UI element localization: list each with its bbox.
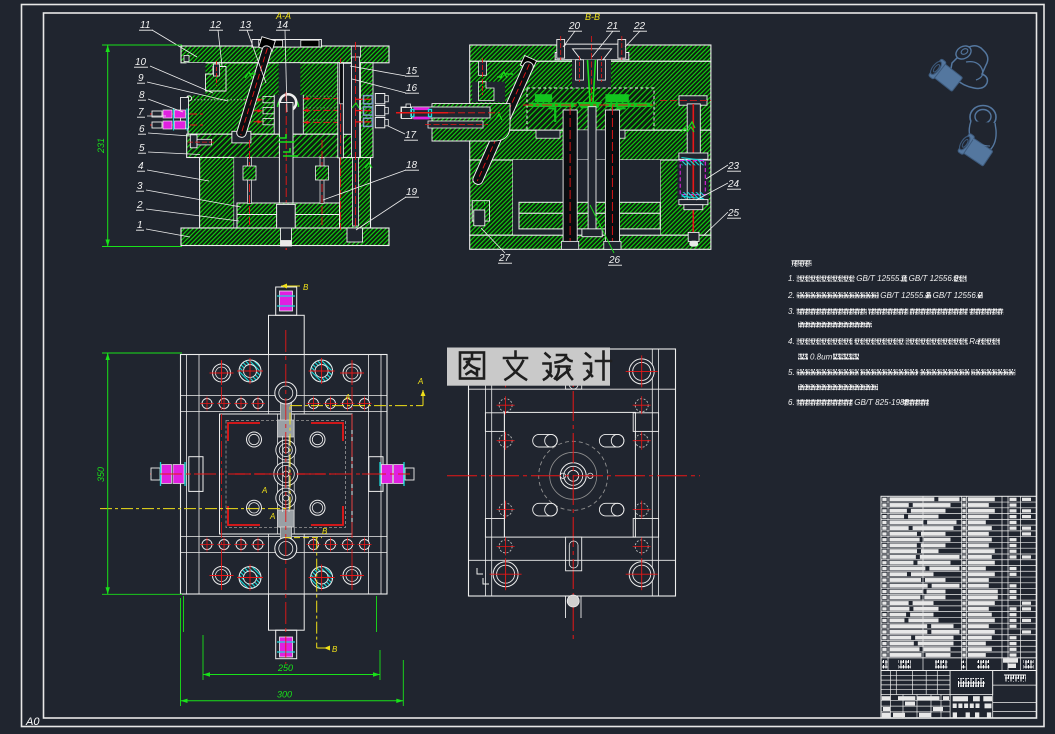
BB dark ejection space [513, 160, 660, 235]
svg-text:11: 11 [140, 20, 150, 31]
BB green gate hooks [549, 108, 626, 122]
notes title [792, 260, 812, 267]
BB bright green runner bars [529, 103, 576, 107]
BB cavity insert dashed box [527, 88, 654, 130]
BB support line [470, 159, 711, 161]
char tu (picture) [460, 353, 484, 379]
PL cyan hatched guide bushings [239, 360, 261, 382]
BB bright green insert patches [535, 94, 552, 102]
green clamp marks center [279, 134, 298, 156]
PL inner verticals [186, 355, 188, 595]
angle pin head [259, 37, 276, 52]
BB washer top [679, 153, 708, 159]
BB right foot screw (item 25) [688, 232, 699, 241]
BB bottom clamp plate [470, 235, 711, 249]
PR outer plate [469, 349, 676, 596]
BB left foot (item 27) [472, 201, 489, 221]
svg-text:6.: 6. [788, 398, 795, 407]
svg-text:5: 5 [139, 143, 145, 154]
dim 350 vertical [107, 353, 109, 594]
PL outer plate [181, 355, 388, 595]
svg-text:15: 15 [406, 66, 418, 77]
svg-text:GB/T 825-1988: GB/T 825-1988 [854, 398, 909, 407]
red runner arrows right with grey dots [303, 98, 355, 100]
PL side screws right [362, 473, 415, 475]
svg-text:4: 4 [138, 161, 144, 172]
BB black ejector bars [563, 110, 577, 241]
svg-text:5.: 5. [788, 368, 795, 377]
BB sprue channel [588, 60, 596, 102]
PL red verticals at bolt columns [221, 360, 223, 590]
svg-text:B: B [303, 283, 309, 292]
PR inner square [504, 412, 635, 537]
dim 300 horizontal [181, 700, 404, 702]
PL central rings top/bottom [275, 382, 297, 404]
PR bottom tail [565, 596, 567, 618]
PR stipple circles [499, 399, 512, 412]
BB top clamp plate [470, 45, 711, 61]
BB dark notch left [472, 82, 505, 102]
PR concentric center [539, 441, 608, 510]
PL side screws left [150, 473, 205, 475]
BB locating ring [555, 44, 629, 60]
BB central pin [588, 107, 596, 229]
cyan spring coils top [681, 159, 704, 165]
svg-text:18: 18 [406, 160, 418, 171]
char ji (plan) [584, 352, 611, 380]
A plate [188, 63, 365, 134]
BB ejector retainer plate [519, 202, 660, 213]
locating ring [252, 40, 321, 48]
svg-text:8: 8 [139, 90, 145, 101]
svg-text:A: A [269, 512, 275, 521]
svg-text:14: 14 [277, 20, 289, 31]
cyan spring coils bottom [681, 192, 704, 199]
BB support pillar head [679, 96, 707, 105]
right spacer block [340, 158, 371, 229]
small hatch blocks on pins [243, 166, 256, 180]
return pin [338, 63, 344, 158]
PL red centerlines [285, 330, 287, 664]
guide bush black flange [340, 63, 344, 104]
BB dark hatched column below sprue [580, 130, 602, 160]
guide pillar foot [347, 228, 363, 242]
svg-text:GB/T 12555.2: GB/T 12555.2 [856, 274, 906, 283]
svg-text:6: 6 [139, 124, 145, 135]
svg-text:B: B [332, 645, 338, 654]
BB ring screws [557, 40, 565, 59]
PR top slot [566, 355, 582, 389]
dark ejection space [234, 158, 339, 229]
dark notch top-left of A plate [187, 63, 206, 96]
svg-text:23: 23 [727, 161, 740, 172]
svg-text:A: A [344, 393, 350, 402]
BOM row texts [882, 498, 886, 501]
BB sprue funnel [573, 49, 612, 60]
ejector retainer plate [237, 203, 340, 215]
svg-text:2: 2 [136, 200, 143, 211]
gate dome (green arc + white donut) [278, 97, 299, 108]
BB nozzle horizontal rod [401, 107, 490, 118]
svg-text:GB/T 12556.2: GB/T 12556.2 [933, 291, 983, 300]
title block middle-bottom boxes [949, 695, 951, 719]
svg-text:1: 1 [137, 220, 143, 231]
BB sprue bushing pocket [572, 60, 611, 88]
svg-text:3.: 3. [788, 307, 795, 316]
elbow fitting 1 [927, 43, 988, 93]
PL red insert frame (thick dash-dot) [228, 423, 343, 525]
svg-text:2.: 2. [787, 291, 795, 300]
svg-text:231: 231 [96, 138, 106, 154]
BB nozzle body block [432, 104, 510, 141]
green finish symbols [245, 72, 256, 78]
svg-text:22: 22 [633, 21, 646, 32]
elbow fitting 2 [956, 106, 996, 168]
svg-text:26: 26 [608, 255, 621, 266]
title block middle cell [950, 671, 993, 695]
PR notches [485, 413, 504, 432]
PL top tab [269, 315, 305, 354]
BB green finish marks [497, 72, 513, 78]
note line 3b [798, 321, 872, 327]
BOM column lines [887, 496, 889, 670]
title block left grid [890, 671, 892, 695]
BB insert shoulder pockets [536, 130, 560, 138]
svg-text:250: 250 [277, 663, 293, 673]
BOM row lines [881, 501, 1037, 503]
BB B plate [470, 130, 711, 160]
svg-text:A0: A0 [25, 716, 40, 728]
svg-text:B: B [322, 527, 328, 536]
PR slots [533, 434, 558, 447]
guide pillar [352, 57, 360, 158]
ejector base plate [237, 215, 340, 229]
PL bottom tab [269, 594, 305, 630]
svg-text:19: 19 [406, 187, 418, 198]
BB angle pin head [520, 56, 536, 71]
BB left spacer [470, 160, 513, 235]
PL small screws rows [202, 399, 212, 409]
PR band verticals [484, 349, 486, 596]
svg-text:10: 10 [135, 57, 147, 68]
B plate [187, 134, 372, 157]
PL big corner rings top band [213, 364, 231, 382]
magenta dashed spring box [680, 161, 705, 195]
green ext verticals below PL [183, 596, 185, 632]
wedge insert in notch [206, 67, 227, 92]
PR corner rings [493, 359, 518, 384]
BB ejector base plate [519, 213, 660, 229]
BOM header row [881, 657, 1037, 659]
PL yellow section line A [100, 508, 290, 510]
svg-text:300: 300 [277, 690, 292, 700]
dim 231 vertical [107, 45, 109, 247]
white brackets right (item 17) [375, 94, 385, 104]
top clamp plate [181, 46, 389, 63]
BOM outer box [881, 496, 1037, 718]
BB support pillar [687, 104, 700, 208]
svg-text:B-B: B-B [585, 12, 600, 22]
PL top screw magenta [280, 291, 293, 311]
central rod redraw through B plate and ejection space [279, 103, 293, 206]
BB angle pin slanted [471, 60, 534, 186]
PL yellow B top [281, 285, 300, 287]
svg-text:0.8um: 0.8um [810, 352, 833, 361]
PL central core frame [220, 414, 353, 534]
BB runner red centerline [523, 104, 657, 106]
cavity pocket [274, 95, 303, 134]
angle pin tip pocket [232, 131, 251, 143]
svg-text:20: 20 [568, 21, 581, 32]
screw in notch [214, 64, 220, 76]
BB pillar foot pad [684, 205, 703, 210]
svg-text:17: 17 [405, 130, 417, 141]
svg-text:21: 21 [606, 21, 618, 32]
char wen (text) [504, 352, 527, 380]
BB A plate [470, 61, 711, 130]
svg-text:13: 13 [240, 20, 252, 31]
BB right spacer [660, 160, 711, 235]
guide pillar notch in top plate [351, 46, 360, 57]
svg-text:16: 16 [406, 83, 418, 94]
rod foot redraw over plates [277, 204, 296, 228]
dark slot above gate [279, 63, 301, 95]
right hatch column [361, 63, 374, 158]
angle pin (slanted) [236, 45, 273, 139]
svg-text:27: 27 [498, 253, 511, 264]
BB central pin foot [582, 229, 602, 237]
svg-text:7: 7 [138, 107, 144, 118]
PR bottom slot [566, 537, 582, 571]
svg-text:24: 24 [727, 179, 740, 190]
ejector pins [248, 158, 252, 204]
BB nozzle lower rod [428, 121, 483, 128]
note line 5b [798, 384, 878, 390]
BB nozzle tip cap [402, 108, 412, 119]
svg-text:A-A: A-A [275, 11, 291, 21]
svg-text:GB/T 12556.2: GB/T 12556.2 [909, 274, 959, 283]
item 6 screw left [190, 135, 197, 148]
svg-text:350: 350 [96, 467, 106, 482]
parting line [187, 133, 372, 135]
left spacer block [200, 158, 235, 229]
dim 250 horizontal [203, 674, 380, 676]
datum circle item8 [186, 96, 191, 101]
central rod [279, 103, 293, 216]
PL hex nuts [247, 432, 262, 447]
PL yellow section line B [316, 538, 318, 648]
guide bush white body [343, 63, 351, 134]
rod white pad [281, 241, 291, 246]
svg-text:9: 9 [138, 73, 144, 84]
title block right cell [992, 671, 994, 719]
svg-text:12: 12 [210, 20, 222, 31]
BB nozzle red centerline [396, 112, 448, 114]
note line 4b [798, 352, 859, 361]
blue limit switches [355, 98, 371, 100]
title block lower-left filled cells [882, 696, 891, 700]
PL horizontal band lines [181, 395, 388, 397]
svg-text:A: A [261, 486, 267, 495]
char she (design) [544, 354, 552, 380]
PR corner L marks [477, 568, 489, 584]
svg-text:3: 3 [137, 181, 143, 192]
left screws assembly (items 7,8) [150, 113, 203, 115]
bottom clamp plate [181, 228, 389, 246]
svg-text:A: A [417, 377, 423, 386]
PR horizontals [469, 388, 676, 390]
PL side tabs [189, 457, 203, 492]
red runner arrows left [245, 99, 263, 101]
green mark right column [352, 103, 372, 168]
PL tab continuation lines [268, 355, 270, 415]
core pins column [263, 97, 274, 103]
PL bottom screw magenta [280, 637, 293, 657]
svg-text:4.: 4. [788, 337, 795, 346]
svg-text:GB/T 12555.2: GB/T 12555.2 [880, 291, 930, 300]
svg-text:1.: 1. [788, 274, 795, 283]
BB green runner center funnel [577, 102, 602, 124]
title block lower-left grid [881, 699, 950, 701]
PL center sprue stack [278, 420, 295, 437]
white dotted line item9 [188, 99, 247, 101]
BB nozzle magenta fitting [413, 107, 429, 110]
BB spacer pocket for spring [677, 161, 708, 205]
PR red crosshairs main [572, 349, 574, 640]
svg-text:25: 25 [727, 208, 740, 219]
BB screw left [479, 61, 487, 75]
left clamp piece [181, 98, 189, 129]
watermark box [447, 348, 610, 386]
BB washer bottom [679, 200, 708, 205]
